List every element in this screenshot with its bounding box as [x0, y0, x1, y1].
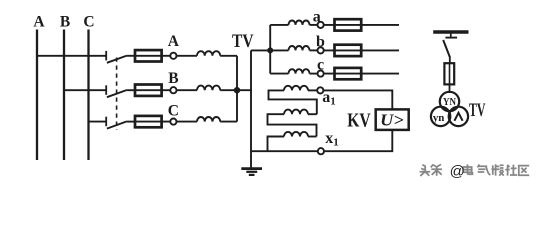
fuse (primary, phase C)	[135, 116, 162, 127]
secondary neutral junction	[267, 47, 273, 53]
svg-text:C: C	[168, 102, 179, 119]
wire winding b to terminal	[310, 49, 318, 51]
single-line disconnector contact	[445, 37, 457, 39]
primary winding (phase A)	[197, 51, 220, 56]
switch gang linkage (dashed)	[116, 58, 118, 131]
disconnector switch contact (phase A)	[105, 51, 107, 61]
auxiliary open-delta winding coil 1	[284, 86, 308, 91]
watermark 头条 @电气微社区	[420, 163, 530, 180]
svg-text:@: @	[450, 163, 465, 180]
wire terminal c through fuse	[324, 73, 399, 75]
wire terminal b through fuse	[324, 49, 399, 51]
single-line busbar	[433, 30, 468, 33]
svg-text:c: c	[317, 57, 324, 74]
fuse (primary, phase A)	[135, 50, 162, 61]
terminal circle c	[318, 71, 324, 77]
wire terminal to winding (phase B)	[177, 89, 198, 91]
winding 3 mark open-delta	[454, 113, 462, 121]
wire coil1 to terminal a1	[308, 89, 317, 91]
svg-text:b: b	[316, 33, 325, 50]
bus B	[63, 30, 65, 161]
wire winding C to star point	[220, 121, 237, 123]
svg-text:TV: TV	[469, 100, 486, 121]
single-line fuse	[444, 63, 454, 84]
terminal circle C	[170, 119, 176, 125]
terminal circle B	[170, 87, 176, 93]
wire terminal to winding (phase C)	[177, 121, 198, 123]
wire a1 to relay	[323, 90, 392, 109]
terminal circle x1	[318, 148, 324, 154]
ground riser wire	[250, 50, 252, 167]
transformer TV symbol winding 1 (YN)	[440, 92, 459, 111]
svg-text:B: B	[60, 14, 70, 31]
relay KV box	[376, 109, 409, 129]
wire through fuse to terminal (phase C)	[136, 121, 170, 123]
auxiliary open-delta winding coil 3	[284, 132, 308, 137]
svg-text:U>: U>	[380, 111, 404, 130]
transformer TV symbol winding 3 (open delta)	[449, 107, 468, 126]
wire winding c to terminal	[310, 73, 318, 75]
primary winding (phase C)	[197, 117, 220, 122]
single-line disconnector blade	[443, 40, 450, 58]
wire blade to fuse	[449, 57, 451, 63]
wire bus C to switch	[89, 121, 107, 123]
svg-text:C: C	[83, 14, 94, 31]
svg-text:A: A	[33, 14, 45, 31]
fuse (secondary, phase a)	[335, 19, 362, 30]
secondary winding b	[289, 46, 310, 50]
wire x1 to relay	[324, 130, 392, 151]
open-delta serpentine wire lower	[268, 137, 285, 152]
svg-text:a1: a1	[322, 89, 336, 108]
svg-text:A: A	[168, 33, 180, 50]
wire through fuse to terminal (phase A)	[136, 55, 170, 57]
svg-text:B: B	[168, 70, 178, 87]
secondary winding a	[289, 20, 310, 24]
wire through fuse to terminal (phase B)	[136, 89, 170, 91]
terminal circle A	[170, 53, 176, 59]
svg-text:yn: yn	[433, 113, 445, 124]
wire neutral to secondary winding c	[270, 73, 288, 75]
svg-text:x1: x1	[325, 130, 339, 149]
wire through fuse	[449, 63, 451, 84]
bus C	[87, 30, 89, 161]
bus A	[36, 30, 38, 161]
wire winding B to star point and ground riser	[220, 89, 252, 91]
secondary neutral vertical wire	[269, 25, 271, 74]
fuse (secondary, phase b)	[335, 45, 362, 56]
earth ground symbol	[241, 169, 262, 175]
wire switch to fuse (phase C)	[127, 121, 136, 123]
bottom wire ground to terminal x1	[251, 150, 318, 152]
auxiliary open-delta winding coil 2	[284, 110, 308, 115]
disconnector switch blade (phase B)	[107, 90, 127, 97]
open-delta serpentine wire middle	[268, 114, 317, 136]
wire coil3 right stub	[308, 136, 317, 138]
disconnector switch contact (phase C)	[105, 117, 107, 127]
wire fuse to transformer	[449, 84, 451, 93]
wire neutral to secondary winding a	[270, 24, 288, 26]
secondary winding c	[289, 69, 310, 73]
wire switch to fuse (phase A)	[127, 55, 136, 57]
terminal circle b	[318, 47, 324, 53]
wire terminal to winding (phase A)	[177, 55, 198, 57]
wire coil2 right stub	[308, 113, 317, 115]
wire bus B to switch	[64, 89, 106, 91]
disconnector switch contact (phase B)	[105, 85, 107, 95]
terminal circle a1	[317, 87, 323, 93]
transformer TV symbol winding 2 (yn)	[431, 107, 450, 126]
svg-text:KV: KV	[347, 111, 370, 132]
wire winding a to terminal	[310, 24, 318, 26]
svg-text:a: a	[313, 9, 321, 26]
wire bus A to switch	[37, 55, 106, 57]
disconnector switch blade (phase C)	[107, 121, 127, 128]
primary winding (phase B)	[197, 86, 220, 91]
svg-text:TV: TV	[232, 31, 254, 52]
open-delta serpentine wire upper	[269, 90, 317, 114]
primary star-point vertical wire	[236, 56, 238, 122]
fuse (primary, phase B)	[135, 85, 162, 96]
wire terminal a through fuse	[324, 24, 399, 26]
single-line bus tap stub	[450, 32, 452, 38]
wire switch to fuse (phase B)	[127, 89, 136, 91]
wire winding A to star point	[220, 55, 237, 57]
wire neutral to secondary winding b	[251, 49, 289, 51]
primary star-point junction	[234, 87, 240, 93]
terminal circle a	[318, 22, 324, 28]
disconnector switch blade (phase A)	[107, 56, 127, 63]
fuse (secondary, phase c)	[335, 68, 362, 79]
